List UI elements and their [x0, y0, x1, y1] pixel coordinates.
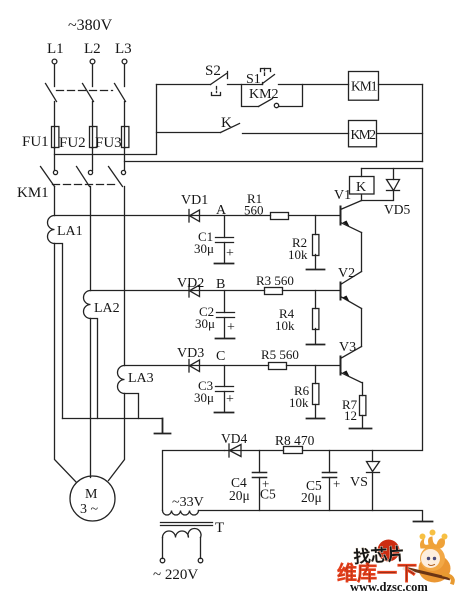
- switch QS blade 3: [115, 84, 126, 102]
- contactor KM1 contact 2: [77, 167, 93, 187]
- wire K row feed: [157, 132, 221, 134]
- svg-text:R5 560: R5 560: [261, 347, 299, 362]
- svg-text:KM2: KM2: [351, 127, 377, 142]
- svg-text:KM2: KM2: [249, 87, 279, 102]
- wire KM2 coil to rail: [377, 133, 423, 135]
- wire bottom bus: [199, 511, 423, 521]
- ground R6: [307, 418, 325, 420]
- resistor R7: [360, 383, 366, 428]
- svg-text:T: T: [215, 520, 224, 536]
- wire control rail right: [422, 85, 424, 162]
- coil KM2: [349, 121, 377, 147]
- resistor R4: [313, 291, 319, 344]
- wire row B: [91, 290, 265, 292]
- reactor LA1: [48, 216, 55, 244]
- svg-text:10k: 10k: [289, 395, 309, 410]
- wire row C: [125, 365, 269, 367]
- wire VD4 to transformer: [163, 451, 225, 511]
- svg-text:V2: V2: [338, 266, 355, 281]
- svg-text:L1: L1: [47, 41, 64, 57]
- wire S2 to S1: [228, 84, 263, 86]
- svg-text:3 ~: 3 ~: [80, 502, 99, 517]
- svg-text:~33V: ~33V: [172, 495, 204, 510]
- ground R7: [350, 428, 372, 430]
- svg-text:C5: C5: [260, 487, 276, 502]
- wire LA1 tap: [55, 244, 63, 419]
- svg-text:KM1: KM1: [351, 79, 378, 94]
- reactor LA3: [118, 366, 125, 394]
- svg-text:10k: 10k: [288, 247, 308, 262]
- contact K: [221, 124, 240, 133]
- svg-text:C: C: [216, 349, 225, 364]
- wire FU3 to KM1 contact: [124, 149, 126, 171]
- svg-text:A: A: [216, 203, 227, 218]
- svg-text:12: 12: [344, 408, 357, 423]
- svg-text:K: K: [356, 180, 366, 195]
- wire FU3 top: [124, 102, 126, 127]
- svg-text:R3 560: R3 560: [256, 273, 294, 288]
- terminal L1: [52, 59, 57, 64]
- wire L1 drop: [54, 65, 56, 87]
- transformer T secondary: [163, 511, 199, 516]
- svg-text:+: +: [226, 246, 234, 261]
- resistor R1: [271, 213, 289, 220]
- svg-text:V3: V3: [339, 340, 356, 355]
- svg-text:30μ: 30μ: [195, 316, 215, 331]
- wire phase3 lower: [109, 394, 125, 481]
- wire K top rail: [362, 168, 423, 170]
- svg-text:VD2: VD2: [177, 276, 204, 291]
- wire R5 to V3 base: [287, 365, 341, 367]
- wire control return from FU3: [125, 161, 423, 163]
- svg-text:FU1: FU1: [22, 134, 49, 150]
- wire FU2 top: [92, 102, 94, 127]
- wire R1 to V1 base: [289, 215, 341, 217]
- wire KM2 branch down: [242, 85, 259, 107]
- switch QS linkage: [57, 90, 113, 92]
- svg-text:www.dzsc.com: www.dzsc.com: [350, 580, 428, 594]
- wire L2 drop: [92, 65, 94, 87]
- wire phase2 lower: [90, 319, 92, 478]
- wire V2 emitter drop: [361, 309, 363, 347]
- wire V1 emitter drop: [361, 233, 363, 272]
- wire phase3 mid: [124, 187, 126, 366]
- contactor KM1 linkage: [53, 184, 115, 186]
- svg-text:K: K: [221, 115, 232, 131]
- svg-text:VD1: VD1: [181, 193, 208, 208]
- fuse FU1: [52, 127, 59, 149]
- ground bottom: [414, 521, 433, 523]
- svg-text:FU2: FU2: [59, 135, 86, 151]
- transistor V2: [341, 272, 362, 309]
- wire tap bus: [63, 418, 163, 420]
- svg-text:S2: S2: [205, 63, 221, 79]
- ground R2: [307, 269, 325, 271]
- wire K contact to KM2 coil: [243, 133, 349, 135]
- wire R3 to V2 base: [283, 290, 341, 292]
- wire LA2 tap: [91, 319, 98, 419]
- svg-text:L2: L2: [84, 41, 101, 57]
- wire KM2 branch up: [279, 85, 303, 107]
- svg-text:R8 470: R8 470: [275, 433, 315, 448]
- terminal L3: [122, 59, 127, 64]
- capacitor C3: [215, 366, 234, 413]
- reactor LA2: [84, 291, 91, 319]
- fuse FU3: [122, 127, 129, 149]
- diode VD5: [387, 169, 400, 201]
- wire S2 row feed: [157, 84, 211, 86]
- svg-text:+: +: [227, 320, 235, 335]
- wire supply rail right: [303, 169, 423, 451]
- transformer T core: [161, 523, 213, 526]
- diode VD4: [229, 444, 241, 457]
- watermark mascot: [405, 530, 453, 583]
- resistor R5: [269, 363, 287, 370]
- capacitor C1: [215, 216, 234, 264]
- pushbutton S2: [211, 72, 228, 96]
- wire phase1 lower: [55, 244, 77, 483]
- terminal L2: [90, 59, 95, 64]
- resistor R3: [265, 288, 283, 295]
- wire L3 drop: [124, 65, 126, 87]
- svg-text:V1: V1: [334, 188, 351, 203]
- wire phase1 upper: [54, 187, 56, 216]
- wire FU1 top: [54, 102, 56, 127]
- transformer T primary: [160, 529, 203, 563]
- svg-text:10k: 10k: [275, 318, 295, 333]
- svg-text:LA1: LA1: [57, 224, 83, 239]
- svg-text:30μ: 30μ: [194, 390, 214, 405]
- wire row A: [55, 215, 271, 217]
- pushbutton S1: [261, 69, 275, 85]
- relay coil K: [350, 177, 375, 196]
- svg-text:+: +: [333, 476, 340, 491]
- capacitor C5: [323, 451, 337, 511]
- svg-text:LA2: LA2: [94, 301, 120, 316]
- diode VS: [367, 451, 380, 511]
- svg-text:VD3: VD3: [177, 346, 204, 361]
- svg-text:20μ: 20μ: [301, 490, 322, 505]
- wire FU2 to KM1 contact: [92, 149, 94, 171]
- wire K coil stubs: [361, 169, 363, 201]
- svg-text:560: 560: [244, 203, 264, 218]
- contactor KM1 contact 3: [109, 167, 126, 187]
- fuse FU2: [90, 127, 97, 149]
- coil KM1: [349, 72, 379, 101]
- wire R8 to VD4: [225, 450, 284, 452]
- wire phase2 mid: [90, 187, 92, 291]
- svg-text:VS: VS: [350, 475, 368, 490]
- wire V1 collector node: [362, 200, 393, 202]
- watermark slogan: [353, 540, 405, 567]
- svg-text:S1: S1: [246, 72, 261, 87]
- switch QS blade 2: [83, 84, 94, 102]
- resistor R8: [284, 447, 303, 454]
- svg-text:~ 220V: ~ 220V: [153, 567, 198, 583]
- svg-text:VD5: VD5: [384, 202, 410, 217]
- svg-text:+: +: [226, 392, 234, 407]
- resistor R2: [313, 216, 319, 269]
- svg-text:M: M: [85, 487, 98, 502]
- resistor R6: [313, 366, 319, 418]
- svg-text:B: B: [216, 277, 225, 292]
- svg-text:VD4: VD4: [221, 431, 247, 446]
- svg-text:LA3: LA3: [128, 371, 154, 386]
- svg-text:L3: L3: [115, 41, 132, 57]
- svg-text:20μ: 20μ: [229, 488, 250, 503]
- motor M: [70, 476, 115, 521]
- contact KM2 holding: [259, 99, 279, 108]
- wire FU1 to KM1 contact: [54, 149, 56, 171]
- svg-text:FU3: FU3: [95, 135, 122, 151]
- ground tap bus: [155, 419, 171, 434]
- wire control feed from FU1: [55, 85, 157, 155]
- wire KM1 coil to rail: [379, 84, 423, 86]
- svg-text:30μ: 30μ: [194, 241, 214, 256]
- transistor V1: [341, 201, 362, 233]
- transistor V3: [341, 347, 362, 383]
- switch QS blade 1: [46, 84, 57, 102]
- contactor KM1 contact 1: [41, 167, 58, 187]
- diode VD3: [189, 360, 200, 373]
- svg-text:KM1: KM1: [17, 185, 49, 201]
- ground R4: [307, 344, 325, 346]
- capacitor C4: [253, 451, 267, 511]
- wire S1 to KM1 coil: [279, 84, 349, 86]
- svg-text:~380V: ~380V: [68, 17, 113, 34]
- capacitor C2: [216, 291, 235, 339]
- diode VD1: [189, 210, 200, 223]
- wire LA3 tap: [125, 394, 139, 419]
- diode VD2: [189, 285, 200, 298]
